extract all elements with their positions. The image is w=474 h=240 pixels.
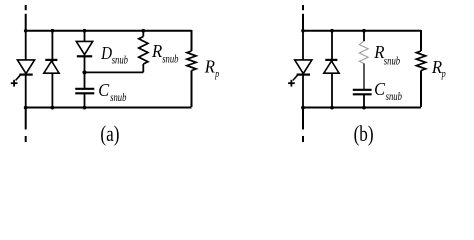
wire thyristor branch (b) xyxy=(302,30,304,107)
junction dot top rail D_snub (a) xyxy=(83,29,87,33)
svg-text:p: p xyxy=(214,69,219,80)
wire thyristor branch (a) xyxy=(25,30,27,107)
resistor R_p (b) right edge xyxy=(416,30,425,107)
svg-text:D: D xyxy=(100,43,112,64)
wire top rail (a) xyxy=(25,30,192,32)
wire antiparallel-diode branch (b) xyxy=(331,30,333,107)
diode D1 antiparallel (a) xyxy=(44,60,59,73)
junction dot top rail left (b) xyxy=(301,29,305,33)
node AC-out (b) dash-dot lead bottom xyxy=(302,107,304,142)
resistor R_p (a) right edge xyxy=(187,30,196,107)
node AC-in (a) dash-dot lead top xyxy=(25,5,27,30)
svg-text:snub: snub xyxy=(162,53,178,66)
junction dot bottom rail left (a) xyxy=(24,106,28,110)
resistor R_snub (b) gray xyxy=(359,41,368,63)
svg-text:snub: snub xyxy=(386,91,402,104)
plus polarity mark (a) xyxy=(11,80,18,87)
svg-text:snub: snub xyxy=(384,55,400,68)
wire snubber branch upper (a) xyxy=(84,30,86,42)
wire mid node (a) xyxy=(85,71,144,73)
wire antiparallel-diode branch (a) xyxy=(51,30,53,107)
junction dot bottom rail snubber (b) xyxy=(362,106,366,110)
plus polarity mark (b) xyxy=(288,80,295,87)
capacitor C_snub (b) xyxy=(353,90,372,107)
junction dot bottom rail left (b) xyxy=(301,106,305,110)
svg-text:C: C xyxy=(98,80,109,100)
diode D1 antiparallel (b) xyxy=(324,60,339,73)
svg-text:C: C xyxy=(374,79,385,99)
svg-text:snub: snub xyxy=(110,92,126,105)
node AC-out (a) dash-dot lead bottom xyxy=(25,107,27,142)
svg-text:R: R xyxy=(204,57,216,77)
junction dot top rail R_snub (a) xyxy=(141,29,145,33)
thyristor T1 (a) xyxy=(16,60,35,81)
svg-text:R: R xyxy=(151,41,163,61)
wire snubber branch upper (b) xyxy=(363,30,365,41)
wire bottom rail (a) xyxy=(25,107,192,109)
junction dot top rail diode (a) xyxy=(51,29,55,33)
svg-text:p: p xyxy=(441,69,446,80)
capacitor C_snub (a) xyxy=(75,72,94,107)
node AC-in (b) dash-dot lead top xyxy=(302,5,304,30)
thyristor T1 (b) xyxy=(293,60,312,81)
svg-text:snub: snub xyxy=(112,55,128,68)
wire bottom rail (b) xyxy=(302,107,421,109)
svg-text:R: R xyxy=(431,57,443,77)
wire top rail (b) xyxy=(302,30,421,32)
junction dot top rail diode (b) xyxy=(330,29,334,33)
junction dot top rail left (a) xyxy=(24,29,28,33)
junction dot bottom rail C_snub (a) xyxy=(83,106,87,110)
wire R_snub to C_snub (b) xyxy=(363,64,365,90)
svg-text:(a): (a) xyxy=(100,122,119,147)
svg-text:(b): (b) xyxy=(354,122,374,147)
diode D_snub (a) xyxy=(76,41,92,72)
junction dot bottom rail diode (a) xyxy=(51,106,55,110)
resistor R_snub (a) xyxy=(139,30,148,72)
junction dot top rail snubber (b) xyxy=(362,29,366,33)
junction dot bottom rail diode (b) xyxy=(330,106,334,110)
junction dot mid node (a) xyxy=(82,70,86,74)
